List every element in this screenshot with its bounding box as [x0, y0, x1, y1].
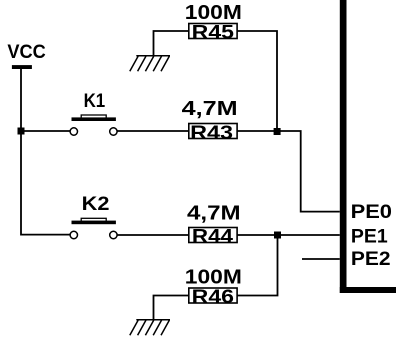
svg-text:R43: R43 [190, 122, 233, 144]
svg-text:PE0: PE0 [351, 202, 392, 223]
svg-text:PE1: PE1 [351, 226, 388, 247]
svg-text:VCC: VCC [7, 42, 46, 63]
svg-text:4,7M: 4,7M [182, 97, 238, 120]
svg-text:R45: R45 [192, 22, 234, 44]
svg-text:K2: K2 [82, 194, 110, 215]
svg-text:K1: K1 [84, 91, 106, 112]
svg-text:4,7M: 4,7M [187, 201, 241, 224]
svg-text:R46: R46 [192, 286, 234, 308]
svg-text:PE2: PE2 [351, 249, 391, 270]
svg-text:R44: R44 [192, 226, 233, 248]
svg-text:100M: 100M [185, 265, 242, 288]
